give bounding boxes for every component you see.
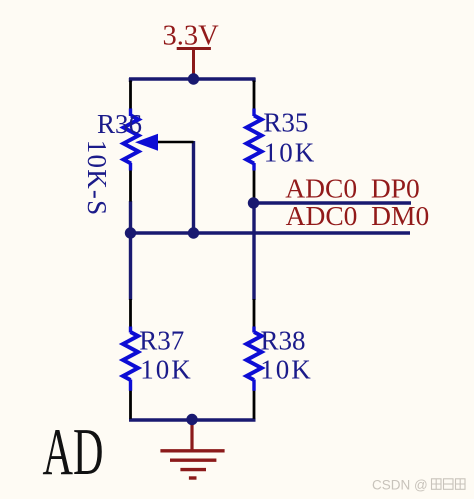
svg-text:10K: 10K [264,138,317,168]
svg-text:R35: R35 [263,108,308,138]
svg-text:CSDN @: CSDN @ [372,478,428,493]
svg-text:AD: AD [43,415,104,489]
svg-text:10K: 10K [260,354,313,384]
svg-text:10K: 10K [140,354,193,384]
svg-text:ADC0 DP0: ADC0 DP0 [285,173,419,204]
svg-text:10K-S: 10K-S [82,140,112,217]
svg-text:ADC0 DM0: ADC0 DM0 [286,200,430,231]
svg-text:R36: R36 [97,109,142,139]
svg-text:R38: R38 [261,326,306,356]
svg-text:R37: R37 [139,326,184,356]
svg-text:3.3V: 3.3V [163,21,220,52]
